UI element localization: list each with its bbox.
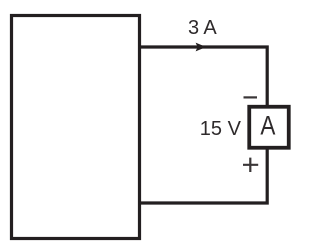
svg-text:A: A [260, 112, 276, 141]
svg-text:A: A [203, 17, 217, 39]
network box N1 (left rectangle) [12, 16, 140, 239]
polarity plus [243, 158, 258, 172]
wire bottom (ammeter branch to network) [139, 148, 267, 203]
svg-text:V: V [228, 118, 242, 140]
polarity minus [244, 96, 258, 98]
svg-text:15: 15 [200, 118, 222, 140]
wire top (network to ammeter branch) [139, 47, 267, 106]
ammeter A1 (square element) [249, 107, 289, 148]
svg-text:3: 3 [188, 17, 199, 39]
current arrow (3 A direction) [196, 43, 207, 52]
